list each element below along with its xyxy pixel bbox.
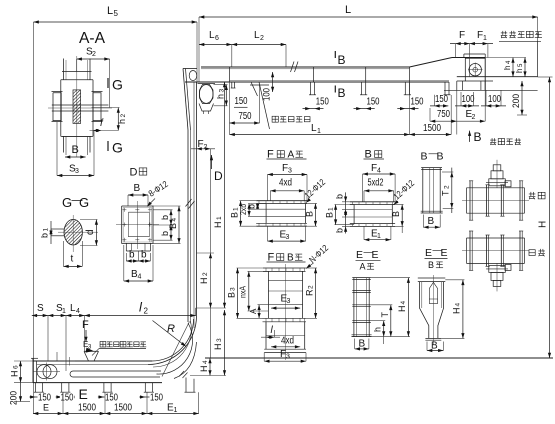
svg-text:G: G [79, 195, 89, 210]
joint x229.5 [229, 67, 231, 82]
head hatch rect [463, 54, 465, 58]
label 中间卸料口 [272, 116, 278, 122]
dim 200 right [521, 81, 523, 115]
leg taper cap [183, 68, 197, 70]
svg-text:B: B [428, 260, 434, 270]
dim H4 (EEA) [407, 278, 409, 337]
svg-text:5: 5 [114, 9, 119, 18]
FB upper body [267, 271, 269, 318]
view arrow D [211, 155, 213, 169]
view arrow B bottom [469, 131, 471, 142]
A-flange top lip [256, 200, 307, 202]
dim B right (A) [315, 204, 317, 227]
svg-text:H: H [452, 308, 462, 315]
B-flange body [353, 205, 355, 224]
svg-text:200: 200 [511, 94, 521, 108]
dim nxA [248, 271, 250, 311]
svg-text:R: R [167, 323, 175, 335]
EEB top lip [418, 277, 446, 279]
foot under top run 4 [444, 82, 446, 95]
leg taper left [183, 69, 188, 131]
BB column [422, 168, 424, 213]
small tab near wheel box [231, 82, 233, 88]
svg-text:4: 4 [400, 301, 407, 305]
take-up bracket [199, 104, 214, 112]
svg-text:1: 1 [483, 35, 487, 42]
FB bottom lip [264, 348, 306, 350]
svg-text:L: L [345, 4, 351, 16]
bend arc 2 [152, 319, 194, 361]
svg-text:B: B [227, 292, 237, 298]
svg-text:F: F [82, 319, 89, 331]
dim B right (Bv) [401, 205, 403, 227]
dim L5 [34, 21, 198, 23]
FB top lip [263, 267, 306, 269]
A-A right bearing [93, 93, 101, 121]
svg-text:150: 150 [316, 97, 329, 108]
ext/H2 line [210, 149, 212, 358]
D flange inner square [128, 212, 149, 237]
svg-text:D: D [130, 167, 138, 179]
EEA flanges [352, 277, 371, 279]
bottom dim row E/1500/1500/E1 [33, 413, 199, 415]
joint x313.5 [313, 67, 315, 82]
svg-text:4: 4 [455, 303, 462, 307]
D flange outer [122, 206, 153, 243]
head legs [456, 81, 458, 90]
mounting plate 安装基准面 [457, 76, 538, 78]
svg-text:b: b [160, 215, 170, 220]
svg-text:E: E [425, 247, 432, 259]
center mark [64, 360, 75, 362]
idler ellipse [189, 71, 197, 81]
svg-text:B: B [338, 86, 346, 100]
svg-text:T: T [441, 190, 451, 196]
dim L [199, 16, 538, 18]
svg-text:h: h [117, 119, 127, 124]
dim H3 [224, 310, 226, 376]
svg-text:b: b [160, 231, 170, 236]
top run bottom edge inner line [230, 79, 450, 81]
A-A sprocket hub [73, 90, 81, 124]
svg-text:F: F [459, 30, 465, 41]
svg-text:3: 3 [287, 298, 291, 305]
svg-text:3: 3 [288, 168, 292, 175]
svg-text:b: b [129, 250, 135, 261]
D bottom tube [125, 243, 127, 251]
svg-text:1: 1 [62, 308, 66, 315]
label 安装基准面 [501, 31, 507, 38]
svg-text:3: 3 [75, 168, 79, 175]
dim 750 left [230, 122, 260, 124]
svg-text:nxA: nxA [239, 285, 248, 298]
svg-text:4xd: 4xd [281, 336, 294, 347]
dim h2 A-A [117, 108, 119, 131]
dim H6 [20, 361, 22, 383]
svg-text:4: 4 [171, 218, 178, 222]
foot under top run 3 [404, 82, 406, 95]
wire ext x197 [196, 22, 198, 82]
svg-text:1: 1 [174, 407, 178, 414]
dim b b right [170, 210, 172, 240]
A-A bottom pipe [62, 135, 92, 137]
svg-text:B: B [474, 130, 482, 144]
svg-text:150: 150 [235, 96, 248, 107]
svg-text:3: 3 [286, 234, 290, 241]
svg-text:d: d [85, 229, 96, 235]
dim H2 [209, 253, 212, 258]
head slope top [410, 58, 453, 68]
FB lower body [265, 322, 267, 349]
boot top edge [33, 360, 152, 362]
A-A body box [61, 79, 93, 81]
svg-text:4: 4 [76, 308, 80, 315]
svg-text:150: 150 [435, 94, 448, 105]
A-A left bearing [53, 93, 61, 121]
svg-text:B: B [338, 53, 346, 67]
G marks [107, 78, 109, 88]
svg-text:E: E [372, 249, 379, 261]
svg-text:1: 1 [317, 128, 321, 135]
svg-text:H: H [199, 278, 209, 285]
B-flange bottom lip [350, 223, 395, 225]
svg-text:b: b [141, 250, 147, 261]
bend arc 4 [157, 323, 193, 374]
svg-text:200: 200 [9, 391, 19, 405]
dim H1 [224, 82, 226, 308]
bend outer arc [148, 316, 197, 365]
A-A shaft [52, 104, 109, 106]
dim b (A) [257, 204, 259, 210]
svg-text:B: B [305, 211, 315, 217]
svg-text:2: 2 [92, 51, 96, 58]
dim H total [549, 77, 551, 358]
spout housing [464, 58, 466, 82]
top run top edge [201, 66, 410, 68]
EEA column [353, 278, 355, 337]
dim 150 joint1 [303, 108, 324, 110]
A-A centerline [76, 56, 78, 157]
svg-text:2: 2 [308, 285, 315, 289]
head shaft circle [469, 63, 481, 75]
dim 200 left [20, 383, 22, 402]
G-G shaft circle hatched [64, 219, 82, 245]
svg-text:E: E [43, 403, 49, 413]
svg-text:100: 100 [488, 94, 501, 105]
A-flange bottom lip [256, 222, 307, 224]
head right edge [484, 58, 486, 91]
svg-text:h: h [373, 327, 383, 332]
boot inner top [37, 364, 148, 366]
svg-text:B: B [72, 144, 79, 156]
svg-text:B: B [325, 212, 335, 218]
label 装配形式 [490, 138, 496, 145]
FB mid flange [263, 317, 307, 319]
foot under top run 1 [310, 82, 312, 95]
svg-text:5xd2: 5xd2 [368, 178, 384, 189]
svg-text:2: 2 [202, 272, 209, 276]
svg-text:B: B [230, 212, 240, 218]
dim T (EEA) [390, 305, 392, 337]
dim h4 [512, 58, 514, 77]
S S1 L4 dim row [32, 315, 85, 317]
svg-text:150: 150 [150, 393, 163, 404]
svg-text:G: G [112, 77, 123, 93]
svg-text:1500: 1500 [423, 123, 441, 134]
svg-text:B: B [437, 151, 444, 163]
keyway [51, 228, 65, 230]
boot 150 dim row [29, 396, 48, 398]
svg-text:b: b [335, 228, 345, 233]
svg-text:H: H [213, 344, 223, 351]
EEB inner pencil [429, 282, 437, 299]
EEB hopper profile [420, 282, 429, 339]
svg-text:E: E [441, 247, 448, 259]
dim f [90, 130, 119, 132]
boot bottom edge [33, 382, 162, 384]
dim 150 joint2 [354, 108, 375, 110]
svg-text:E: E [356, 249, 363, 261]
svg-text:3: 3 [230, 287, 237, 291]
dim b1 [50, 221, 52, 244]
BB lips [421, 167, 442, 169]
dim B1 (Bv) [335, 205, 337, 225]
A-flange body [265, 204, 267, 224]
dim L2 [232, 44, 286, 46]
dim B4 right [178, 206, 180, 243]
svg-text:B: B [134, 183, 141, 194]
dim H4 (EEB) [462, 280, 464, 339]
svg-text:100: 100 [462, 94, 475, 105]
svg-text:1500: 1500 [114, 403, 132, 414]
svg-text:6: 6 [215, 35, 219, 42]
G-G centerlines [58, 231, 98, 233]
dim 150 joint3 [397, 108, 418, 110]
dim H4 leg [209, 358, 211, 376]
svg-text:150: 150 [61, 393, 74, 404]
svg-text:b: b [40, 233, 50, 238]
svg-text:H: H [199, 366, 209, 373]
B-flange top lip [350, 201, 395, 203]
svg-text:1: 1 [377, 233, 381, 240]
svg-text:4: 4 [138, 274, 142, 281]
dim h3 [225, 85, 227, 106]
dim B3 [237, 268, 239, 318]
svg-text:G: G [112, 140, 123, 156]
dim d [95, 220, 97, 246]
take-up hexagon [200, 85, 214, 104]
svg-text:B: B [168, 223, 178, 229]
dim R2 [315, 268, 317, 318]
intermediate discharge chute [251, 82, 258, 96]
A-A top pipe [63, 59, 65, 80]
top run top edge inner line [201, 68, 410, 70]
dim 2xb (A) [248, 204, 250, 217]
leg break mark [186, 199, 192, 207]
joint x409.5 [409, 67, 411, 82]
dim L1 [230, 134, 410, 136]
dim A [258, 305, 260, 319]
svg-text:B: B [391, 211, 401, 217]
joint x365.7 [365, 67, 367, 82]
dim 150 near wheel box [234, 106, 248, 108]
svg-text:2: 2 [260, 35, 264, 42]
svg-text:150: 150 [411, 97, 424, 108]
dim h (EEA) [383, 321, 385, 337]
take-up top plate [198, 83, 216, 85]
svg-text:3: 3 [286, 354, 290, 361]
D centerlines [136, 201, 138, 249]
bend arc 3 [153, 321, 191, 367]
dim T2 [451, 168, 453, 213]
svg-text:1: 1 [43, 228, 50, 232]
svg-text:t: t [71, 254, 74, 265]
svg-text:750: 750 [437, 109, 450, 120]
svg-text:B: B [428, 216, 435, 227]
boot slot [73, 370, 161, 372]
svg-text:B: B [421, 151, 428, 163]
svg-text:2: 2 [144, 307, 149, 316]
baseline [205, 357, 553, 359]
svg-text:R: R [305, 289, 315, 296]
bolt crosses [122, 209, 126, 211]
svg-text:H: H [213, 222, 223, 229]
svg-text:T: T [380, 312, 390, 318]
svg-text:2: 2 [120, 114, 127, 118]
EEB centerline [432, 275, 434, 345]
EEB bottom flange [425, 337, 441, 339]
dim F F1 [450, 43, 493, 45]
A-A top pipe inner walls [65, 60, 67, 80]
svg-text:4: 4 [202, 360, 209, 364]
foot under top run 2 [361, 82, 363, 95]
svg-text:6: 6 [13, 365, 20, 369]
bend diagonal [162, 322, 190, 377]
svg-text:H: H [10, 371, 20, 378]
svg-text:1500: 1500 [78, 403, 96, 414]
boot left end [32, 358, 34, 382]
svg-text:b: b [335, 194, 345, 199]
bend lower outer arc [174, 342, 197, 379]
svg-text:A: A [360, 262, 366, 272]
boot feet [34, 383, 36, 393]
svg-text:D: D [214, 169, 223, 183]
svg-text:1: 1 [216, 216, 223, 220]
head top [452, 57, 485, 59]
svg-text:S: S [37, 303, 44, 314]
wire ext x537.6 [537, 17, 539, 41]
dim 750/E2 row [430, 120, 457, 122]
svg-text:3: 3 [216, 338, 223, 342]
dim 1500 head [410, 134, 452, 136]
leg wall lines [187, 130, 189, 322]
assembly right-install 右装 [467, 237, 525, 239]
dim B1 (A) [240, 201, 242, 227]
label 加料口中心线 [100, 341, 106, 347]
svg-text:h: h [515, 69, 524, 73]
svg-text:2: 2 [444, 185, 451, 189]
feed funnel [84, 350, 99, 352]
svg-text:750: 750 [239, 111, 252, 122]
svg-text:E: E [79, 386, 88, 402]
svg-text:4xd: 4xd [279, 178, 292, 189]
svg-text:1: 1 [328, 207, 335, 211]
svg-text:150: 150 [367, 97, 380, 108]
dim b top (Bv) [345, 192, 347, 233]
section mark B lower [334, 86, 336, 93]
svg-text:4: 4 [377, 168, 381, 175]
svg-text:1: 1 [233, 207, 240, 211]
dim 100 vertical at discharge [272, 72, 274, 92]
svg-text:A-A: A-A [79, 30, 105, 47]
dim h5 [524, 58, 526, 77]
dim b|b bottom [126, 260, 150, 262]
bend foot [185, 378, 187, 393]
svg-text:H: H [538, 221, 549, 228]
R leader arrow [153, 321, 187, 347]
svg-text:L: L [107, 5, 113, 17]
wire left extension line [33, 22, 35, 414]
dim L6 [199, 44, 232, 46]
FB centerline [285, 264, 287, 360]
svg-text:h: h [503, 66, 512, 70]
svg-text:H: H [397, 306, 407, 313]
head dim row 150/100/100 [430, 105, 448, 107]
tail wheel circles [37, 365, 51, 379]
svg-text:2: 2 [472, 114, 476, 121]
assembly left-install 左装 [467, 187, 525, 189]
break mark [291, 62, 295, 73]
top run bottom edge [185, 81, 449, 83]
section mark B upper [334, 51, 336, 58]
wire ext x199 [198, 17, 200, 82]
svg-text:h: h [216, 94, 226, 99]
